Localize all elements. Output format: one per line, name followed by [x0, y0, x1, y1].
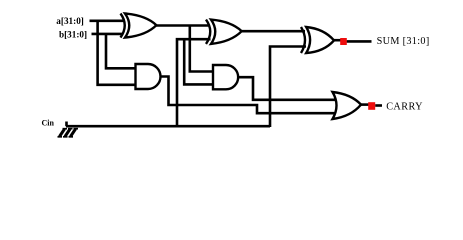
wire a input to XOR1 top: [90, 19, 124, 22]
wire XOR2 output to XOR3 top input: [241, 30, 305, 33]
wire SUM marker to label: [347, 40, 372, 43]
and-gate U5 (cin and (a xor b)): [213, 65, 238, 89]
svg-text:SUM [31:0]: SUM [31:0]: [377, 36, 430, 47]
wire AND1 output to OR bottom input: [160, 77, 339, 114]
wire branch from XOR1 output down to AND2 top input: [190, 26, 213, 72]
wire AND2 output to OR top input: [238, 77, 340, 100]
wire XOR1 output to XOR2 top input: [156, 24, 211, 27]
or-gate U6 (carry output): [333, 92, 362, 119]
wire CARRY marker to label: [375, 104, 382, 107]
wire OR output to CARRY marker: [361, 103, 370, 106]
svg-text:a[31:0]: a[31:0]: [56, 16, 84, 26]
wire branch down to AND2 bottom input: [184, 38, 213, 84]
svg-text:Cin: Cin: [42, 119, 55, 128]
and-gate U4 (a and b): [136, 64, 161, 89]
wire Cin start tick: [65, 122, 68, 127]
wire Cin riser to XOR3 bottom input: [270, 47, 306, 128]
svg-text:CARRY: CARRY: [386, 102, 423, 113]
wire XOR3 output to SUM marker: [334, 39, 342, 42]
wire a branch down to AND1 bottom input: [98, 20, 136, 85]
xor-gate U1 (a xor b): [121, 14, 157, 38]
bus slash marks at Cin: [60, 129, 76, 137]
xor-gate U3 (sum output): [301, 27, 334, 53]
output marker SUM (red): [340, 38, 347, 45]
wire b branch down to AND1 top input: [106, 33, 136, 68]
output marker CARRY (red): [368, 102, 375, 110]
wire Cin rail: [66, 125, 270, 128]
wire b input to XOR1 bottom: [92, 33, 124, 36]
svg-text:b[31:0]: b[31:0]: [59, 30, 87, 40]
serif feet on slash marks: [58, 129, 79, 137]
xor-gate U2 ((a xor b) xor cin): [206, 20, 242, 44]
wire Cin riser to XOR2 bottom input: [177, 39, 211, 126]
